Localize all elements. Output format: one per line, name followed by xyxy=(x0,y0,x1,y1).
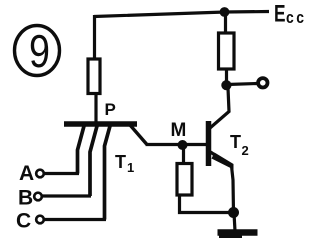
wire R3 to ground junction xyxy=(180,195,234,213)
label Ecc xyxy=(274,1,306,28)
wire A to emitter 1 xyxy=(44,172,79,175)
wire C to emitter 3 xyxy=(44,218,106,221)
svg-text:T: T xyxy=(230,132,241,152)
output terminal circle xyxy=(258,78,267,87)
label T1 xyxy=(115,152,134,175)
node Ecc junction dot xyxy=(220,7,230,17)
transistor T2 emitter lead with arrow xyxy=(211,152,234,170)
svg-text:E: E xyxy=(274,1,286,27)
wire R1 to T1 base bar (node P) xyxy=(94,94,97,123)
svg-text:1: 1 xyxy=(127,160,134,175)
transistor T1 emitter 3 lead xyxy=(105,126,111,220)
svg-text:cc: cc xyxy=(286,9,306,28)
wire Ecc junction to R2 xyxy=(224,12,227,33)
transistor T1 emitter 2 lead xyxy=(90,126,97,196)
input terminal C xyxy=(16,210,106,233)
wire Ecc rail (top) xyxy=(94,12,269,17)
transistor T1 collector lead xyxy=(130,125,147,144)
input terminal A xyxy=(19,162,79,185)
transistor T2 base bar xyxy=(206,121,212,166)
transistor T2 collector lead xyxy=(210,88,229,128)
svg-text:2: 2 xyxy=(242,143,249,158)
wire node M to R3 xyxy=(182,145,185,164)
svg-text:9: 9 xyxy=(29,25,50,76)
wire B to emitter 2 xyxy=(42,194,91,197)
svg-text:B: B xyxy=(18,187,33,210)
wire output junction to terminal xyxy=(227,84,257,85)
resistor R3 xyxy=(177,164,192,196)
input terminal B xyxy=(18,187,91,210)
node ground junction dot xyxy=(228,207,239,218)
resistor R2 xyxy=(219,33,235,69)
svg-text:P: P xyxy=(105,100,116,119)
svg-text:T: T xyxy=(115,152,126,172)
svg-text:A: A xyxy=(19,162,34,185)
node output junction dot xyxy=(221,80,231,90)
transistor T1 base bar (multi-emitter) xyxy=(64,121,137,127)
resistor R1 xyxy=(88,59,100,94)
figure number 9 in circle xyxy=(15,25,60,76)
transistor T1 emitter 1 lead xyxy=(78,126,85,174)
wire R2 to output junction xyxy=(225,69,228,85)
svg-text:M: M xyxy=(171,120,187,141)
wire ground junction to ground xyxy=(234,213,235,231)
label T2 xyxy=(230,132,249,158)
wire T1 collector to T2 base (through node M) xyxy=(146,143,207,146)
svg-text:C: C xyxy=(16,210,31,233)
wire T2 emitter to ground junction xyxy=(232,166,234,213)
wire top rail to R1 xyxy=(93,15,96,59)
ground xyxy=(218,233,258,237)
node M junction dot xyxy=(178,140,188,150)
